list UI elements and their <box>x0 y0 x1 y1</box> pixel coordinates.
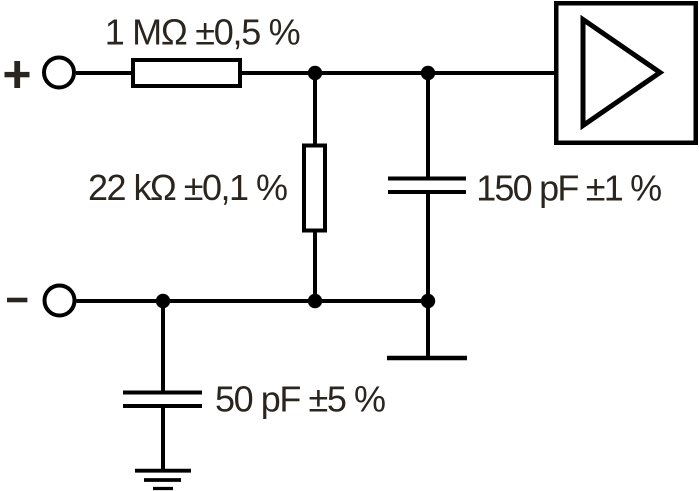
wire: node B down to capacitor C1 <box>426 73 430 179</box>
plus terminal polarity mark (+) <box>5 61 30 88</box>
capacitor C2 top plate <box>123 391 202 395</box>
wire: resistor R2 down to bottom rail <box>313 230 317 301</box>
wire: + terminal to resistor R1 <box>76 71 135 75</box>
resistor R2 <box>304 146 325 231</box>
minus terminal polarity mark (−) <box>7 298 27 303</box>
capacitor C1 bottom plate <box>388 190 466 194</box>
node B junction dot (top rail / C1 branch) <box>421 66 435 80</box>
amplifier U1 box <box>556 3 696 143</box>
bottom rail wire: − terminal to node D <box>77 299 429 303</box>
capacitor C2 bottom plate <box>123 404 202 408</box>
input terminal T2 (−) circle <box>45 286 75 316</box>
earth ground bar 2 <box>144 478 181 482</box>
earth ground bar 3 <box>153 487 173 490</box>
earth ground bar 1 <box>135 469 191 473</box>
wire: node A down to resistor R2 <box>313 73 317 147</box>
svg-text:150 pF ±1 %: 150 pF ±1 % <box>476 168 662 209</box>
node A junction dot (top rail / R2 branch) <box>308 66 322 80</box>
node F junction dot (bottom rail / R2 branch) <box>308 294 322 308</box>
input terminal T1 (+) circle <box>44 58 74 88</box>
svg-text:22 kΩ ±0,1 %: 22 kΩ ±0,1 % <box>88 167 288 208</box>
wire: capacitor C2 down to earth ground <box>161 406 165 470</box>
node D junction dot (bottom rail / C1 branch) <box>421 294 435 308</box>
chassis ground bar under C1 <box>387 356 467 360</box>
capacitor C1 top plate <box>388 177 466 181</box>
wire: R1 to amplifier U1 input <box>240 71 556 75</box>
wire: capacitor C1 through node D to chassis ground <box>426 192 430 358</box>
node E junction dot (bottom rail / C2 branch) <box>156 294 170 308</box>
resistor R1 <box>133 60 240 86</box>
svg-text:50 pF ±5 %: 50 pF ±5 % <box>215 379 386 420</box>
amplifier U1 triangle <box>583 20 660 126</box>
wire: node E down to capacitor C2 <box>161 301 165 393</box>
svg-text:1 MΩ ±0,5 %: 1 MΩ ±0,5 % <box>105 12 301 53</box>
